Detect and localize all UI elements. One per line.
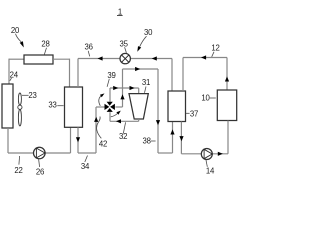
flow arrow down on line 34 (76, 137, 80, 142)
figure number 1 (117, 7, 123, 16)
svg-text:38: 38 (143, 136, 151, 145)
four-way valve 39 (105, 102, 115, 112)
leader for 31 (145, 87, 147, 93)
flow arrow right on suction line (113, 86, 118, 90)
leader for 35 (125, 47, 127, 53)
wire line 38 bottom run (158, 152, 173, 154)
wire line 38 down (157, 69, 159, 153)
wire discharge line to valve bottom (110, 120, 139, 122)
svg-text:23: 23 (28, 91, 36, 100)
leader for 14 (206, 160, 207, 167)
component 28 (24, 55, 53, 64)
leader for 26 (39, 159, 40, 167)
svg-text:10: 10 (201, 93, 210, 102)
leader arrow for 20 (16, 34, 24, 48)
wire coolant line 28 to 33 (53, 58, 70, 60)
wire down into hx 33 left pipe (69, 59, 71, 87)
wire down into hx 33 right pipe (77, 59, 79, 88)
leader for 34 (85, 156, 88, 163)
wire up into chiller 37 bottom-left pipe (172, 122, 174, 154)
flow arrow down on 37 bottom-right pipe (179, 136, 183, 141)
wire valve left port (96, 106, 105, 108)
wire down from line 12 to battery 10 (226, 58, 228, 91)
flow arrow left right of valve 35 (152, 56, 157, 60)
wire line 42 up to valve (95, 107, 97, 153)
leader for 28 (44, 48, 46, 55)
fan 23 (18, 93, 22, 126)
leader for 32 (123, 122, 125, 133)
wire bottom coolant line 22 (8, 152, 71, 154)
wire up into hx 33 bottom-left pipe (70, 127, 72, 153)
flow arrow left on discharge line (116, 119, 121, 123)
wire up into battery 10 bottom (227, 121, 229, 154)
leader dash for 10 (210, 97, 216, 99)
flow arrow up into 37 (170, 129, 174, 134)
flow arrow right on bypass top (135, 67, 140, 71)
flow arrow up to battery 10 (225, 76, 229, 81)
wire top-left coolant line (9, 58, 24, 60)
svg-text:31: 31 (142, 78, 150, 87)
leader for 42 (97, 117, 102, 139)
wire refrigerant top line 36 (78, 58, 172, 60)
svg-text:20: 20 (11, 26, 20, 35)
svg-text:35: 35 (120, 39, 129, 48)
compressor 31 (129, 94, 148, 119)
leader dash for 37 (186, 112, 190, 114)
svg-text:26: 26 (36, 168, 44, 177)
flow arrow down on line 38 (156, 120, 160, 125)
wire compressor discharge drop (138, 119, 140, 121)
flow arrow left on line 12 (201, 55, 206, 59)
wire right coolant top line 12 (183, 57, 227, 59)
svg-text:33: 33 (48, 101, 56, 110)
wire refrigerant into chiller 37 top-left pipe (171, 59, 173, 92)
wire valve right port (115, 106, 122, 108)
wire down into 37 top-right pipe (182, 58, 184, 92)
wire left coolant down to radiator (8, 59, 10, 84)
radiator 24 (2, 84, 13, 128)
flow arrow right after pump 14 (218, 152, 223, 156)
expansion valve 35 (120, 53, 130, 63)
svg-text:42: 42 (99, 140, 107, 149)
heat exchanger 33 (65, 87, 83, 127)
svg-text:22: 22 (14, 166, 22, 175)
leader for 22 (18, 156, 21, 165)
leader for 39 (107, 79, 109, 87)
svg-text:30: 30 (144, 28, 153, 37)
leader for 24 (10, 78, 12, 81)
wire valve bottom port (109, 112, 111, 121)
svg-text:39: 39 (107, 71, 115, 80)
wire drop into compressor top (138, 88, 140, 94)
curved flow arrow left-to-top at valve (99, 93, 105, 105)
leader dash for 38 (151, 140, 156, 142)
curved flow arrow bottom-to-right at valve (111, 111, 121, 117)
pump 14 (201, 149, 212, 160)
svg-text:14: 14 (206, 167, 215, 176)
wire radiator down to bottom line (7, 128, 9, 153)
flow arrow up on bypass (120, 94, 124, 99)
chiller 37 (168, 91, 186, 122)
svg-text:28: 28 (41, 40, 49, 49)
pump 26 (34, 147, 46, 159)
leader dash for 33 (57, 105, 63, 107)
wire right coolant bottom run (181, 153, 228, 155)
leader for 36 (88, 51, 90, 57)
wire bypass vertical (122, 69, 124, 107)
svg-text:1: 1 (118, 7, 122, 16)
leader arrow for 30 (137, 36, 146, 52)
flow arrow right near compressor (130, 86, 135, 90)
wire suction line to compressor (110, 87, 139, 89)
wire valve top port up (109, 88, 111, 102)
battery 10 (217, 90, 236, 121)
flow arrow left on line 36 (98, 56, 103, 60)
wire line 34 bottom run (78, 152, 96, 154)
wire refrigerant line 34 down from 33 (77, 127, 79, 153)
svg-text:12: 12 (211, 44, 219, 53)
flow arrow up on line 42 (94, 117, 98, 122)
leader for 12 (212, 52, 214, 57)
svg-text:37: 37 (190, 109, 198, 118)
leader dash for 23 (22, 94, 29, 96)
wire 37 bottom-right pipe down (180, 122, 182, 154)
svg-text:36: 36 (85, 43, 93, 52)
svg-text:34: 34 (81, 162, 90, 171)
wire bypass top run (123, 68, 159, 70)
